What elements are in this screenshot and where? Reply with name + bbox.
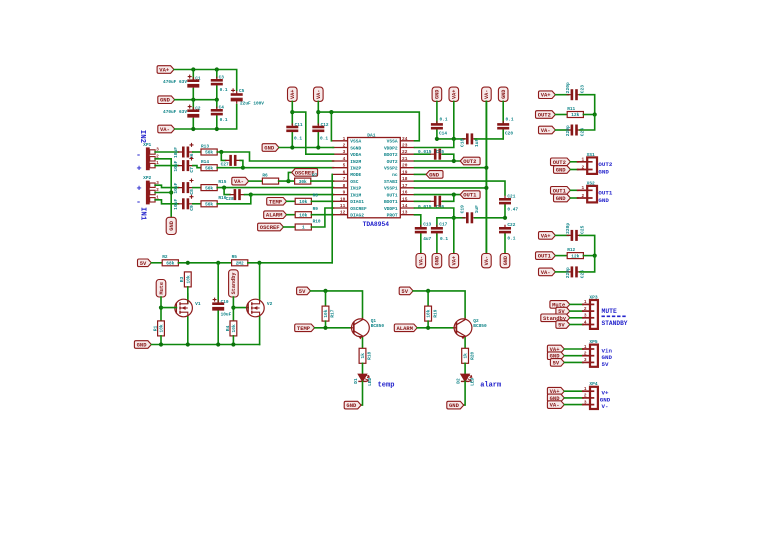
flag VA+ right — [449, 87, 459, 101]
svg-text:GND: GND — [556, 195, 567, 202]
flag TEMP — [267, 198, 287, 206]
svg-text:2: 2 — [584, 393, 587, 399]
capacitor C19 symbol — [462, 212, 477, 223]
capacitor C26 symbol — [567, 266, 582, 277]
flag GND xp5 — [547, 352, 564, 360]
capacitor C17 symbol — [431, 225, 443, 236]
capacitor C16 symbol — [430, 196, 445, 207]
junction out1 node — [452, 193, 456, 197]
svg-text:470uF 63V: 470uF 63V — [163, 79, 187, 85]
svg-text:1uF: 1uF — [474, 138, 480, 147]
wire base alarm — [417, 327, 453, 329]
svg-text:VA-: VA- — [541, 127, 551, 134]
wire C9 to R16 — [193, 203, 201, 205]
flag VA- zobel1 — [539, 268, 556, 276]
resistor R19 — [425, 306, 439, 321]
wire standby down — [232, 297, 234, 321]
svg-text:OSCREF: OSCREF — [350, 206, 367, 212]
connector XP4 — [582, 381, 598, 409]
svg-text:OUT1: OUT1 — [553, 187, 567, 194]
svg-text:5: 5 — [343, 163, 346, 169]
junction C28 right — [249, 193, 253, 197]
wire R8 to pin10 — [311, 200, 333, 202]
op-amp IC DA1 TDA8954 — [332, 132, 415, 228]
svg-text:13: 13 — [402, 210, 408, 216]
svg-text:OUT2: OUT2 — [598, 161, 612, 168]
wire pin21 out2 — [415, 160, 461, 162]
wire 5v xp3a — [570, 310, 583, 312]
svg-text:C9: C9 — [189, 205, 195, 211]
svg-text:VA+: VA+ — [541, 92, 552, 99]
capacitor C18 labels — [460, 138, 481, 147]
wire R9 to pin12 — [311, 214, 333, 216]
svg-text:1: 1 — [582, 185, 585, 191]
svg-text:0.1: 0.1 — [294, 136, 302, 142]
capacitor C21 symbol — [499, 196, 511, 207]
flag GND xs1 — [554, 166, 571, 174]
wire C11 bottom — [291, 133, 293, 148]
svg-text:C23: C23 — [580, 85, 586, 94]
wire GND to pin2 — [279, 147, 334, 149]
label OUT1 GND xs2 — [598, 190, 612, 204]
capacitor C2 labels — [163, 106, 201, 115]
svg-text:R8: R8 — [313, 193, 319, 199]
capacitor C20 symbol — [497, 121, 509, 132]
svg-text:VDDP2: VDDP2 — [384, 145, 398, 151]
svg-text:OSC: OSC — [350, 179, 358, 185]
svg-text:0.1: 0.1 — [320, 136, 328, 142]
svg-text:BOOT1: BOOT1 — [384, 199, 398, 205]
wire C10 bottom — [217, 311, 219, 344]
wire XP1.1 to C7 — [155, 165, 178, 167]
label OUT2 GND xs1 — [598, 161, 612, 175]
svg-text:VA-: VA- — [484, 90, 490, 99]
svg-text:1: 1 — [584, 299, 587, 305]
ground flag GND input — [166, 217, 176, 234]
capacitor C8 symbol — [178, 179, 194, 194]
flag VA- mid — [314, 87, 324, 101]
junction C12 gnd — [316, 145, 320, 149]
connector XP3 — [582, 294, 598, 329]
svg-text:16: 16 — [402, 190, 408, 196]
wire mute down — [160, 297, 162, 321]
junction R15 out — [222, 186, 226, 190]
svg-text:R19: R19 — [432, 309, 438, 317]
capacitor C7 labels — [173, 160, 195, 172]
wire pin18 stabi — [415, 181, 506, 195]
capacitor C3 symbol — [211, 77, 223, 88]
flag VA- xp4 — [547, 401, 564, 409]
wire V2 source — [259, 317, 261, 345]
capacitor C24 labels — [565, 125, 585, 136]
capacitor C15 symbol — [430, 149, 445, 160]
svg-text:1: 1 — [584, 344, 587, 350]
wire XP2.2 — [155, 192, 171, 194]
svg-text:C5: C5 — [239, 88, 245, 94]
svg-text:XP2: XP2 — [143, 175, 151, 181]
svg-text:+: + — [137, 163, 142, 173]
resistor R12 — [567, 247, 583, 259]
wire gnd xp4 — [564, 397, 583, 399]
svg-text:VDDA: VDDA — [350, 152, 361, 158]
svg-text:TEMP: TEMP — [297, 325, 311, 332]
resistor R9 — [295, 206, 318, 218]
svg-text:R13: R13 — [201, 143, 209, 149]
wire pullup top alarm — [427, 291, 429, 306]
svg-text:VSSA: VSSA — [350, 139, 361, 145]
wire C13 to va- — [420, 234, 422, 253]
wire OSCREF up — [288, 172, 291, 181]
resistor R8 — [295, 193, 318, 205]
svg-text:R10: R10 — [313, 218, 321, 224]
junction zobel2 — [593, 112, 597, 116]
flag Mute xp3 — [550, 301, 570, 309]
svg-text:R4: R4 — [225, 325, 231, 331]
junction C2 bottom — [191, 127, 195, 131]
svg-text:VA+: VA+ — [159, 67, 170, 74]
capacitor C26 labels — [565, 267, 585, 278]
capacitor C8 labels — [173, 182, 195, 194]
wire ALARM to R9 — [287, 214, 296, 216]
capacitor C13 symbol — [415, 225, 427, 236]
flag VA+ xp4 — [547, 387, 564, 395]
wire pin19 nc — [415, 173, 427, 175]
junction C1 top — [191, 67, 195, 71]
capacitor C18 symbol — [462, 133, 477, 144]
wire R15 to pin8 — [217, 187, 333, 189]
svg-text:LED: LED — [367, 377, 373, 385]
transistor V1 — [175, 299, 201, 317]
wire C12 bottom — [317, 133, 319, 148]
wire base temp — [315, 327, 351, 329]
wire V2 gate — [233, 307, 248, 309]
svg-text:R15: R15 — [218, 179, 226, 185]
flag GND xp4 — [547, 394, 564, 402]
wire V1 source — [187, 317, 189, 345]
junction pin1 branch — [329, 110, 333, 114]
separator dashes — [602, 315, 628, 317]
svg-text:VA+: VA+ — [541, 232, 552, 239]
svg-text:GND: GND — [137, 342, 148, 349]
junction V2 gate — [231, 306, 235, 310]
junction R3 top — [186, 261, 190, 265]
wire OUT2 to XS1 — [570, 161, 577, 163]
svg-text:1k: 1k — [463, 353, 469, 359]
wire C28 left — [224, 188, 230, 195]
svg-text:15: 15 — [402, 196, 408, 202]
wire C8 to R15 — [193, 187, 201, 189]
svg-text:XS2: XS2 — [587, 180, 595, 186]
connector XP2 — [143, 175, 159, 204]
wire C15 to out2 — [443, 154, 454, 161]
capacitor C19 labels — [460, 205, 481, 214]
svg-text:GND: GND — [346, 402, 357, 409]
wire pin15 boot1 — [415, 200, 431, 202]
wire 5V rail temp — [311, 291, 363, 318]
svg-text:OUT2: OUT2 — [553, 159, 566, 166]
flag VA+ xp5 — [547, 345, 564, 353]
wire C6 to R13 — [193, 151, 201, 153]
wire C4 top lead — [216, 100, 218, 108]
wire C17 to gnd — [436, 234, 438, 253]
wire V1 drain — [187, 294, 189, 299]
svg-text:GND: GND — [501, 90, 507, 99]
LED D1 — [353, 374, 373, 386]
svg-text:OUT2: OUT2 — [538, 112, 551, 119]
svg-text:VSSP1: VSSP1 — [384, 186, 398, 192]
svg-text:C17: C17 — [439, 222, 447, 228]
svg-text:C24: C24 — [580, 128, 586, 137]
svg-text:R18: R18 — [367, 351, 373, 359]
wire pin23 up — [415, 139, 454, 148]
wire R5 to mode — [248, 262, 332, 264]
svg-text:9: 9 — [343, 190, 346, 196]
capacitor C9 symbol — [178, 195, 194, 210]
svg-text:4: 4 — [343, 156, 346, 162]
flag ALARM alarm — [394, 324, 417, 332]
resistor R13 — [201, 143, 217, 155]
svg-text:17: 17 — [402, 183, 408, 189]
flag 5V xp5 — [550, 359, 564, 367]
svg-text:C18: C18 — [460, 138, 466, 147]
capacitor C21 labels — [507, 194, 518, 213]
label MUTE — [602, 308, 618, 315]
resistor R18 — [359, 348, 373, 363]
label temp — [378, 382, 395, 390]
svg-text:R16: R16 — [218, 195, 226, 201]
flag VA- bottom — [416, 254, 426, 268]
capacitor C9 labels — [173, 199, 195, 211]
flag VA- bottom2 — [482, 254, 492, 268]
svg-text:2: 2 — [343, 143, 346, 149]
flag 5V xp3a — [556, 307, 570, 315]
capacitor C13 labels — [423, 222, 431, 242]
svg-text:OUT1: OUT1 — [538, 253, 552, 260]
svg-text:30k: 30k — [299, 179, 307, 185]
flag VA+ mid — [288, 87, 298, 101]
junction C3-C4 — [215, 98, 219, 102]
wire va- xp4 — [564, 404, 583, 406]
connector XP5 — [582, 339, 598, 367]
junction base alarm — [426, 326, 430, 330]
svg-text:10k: 10k — [299, 199, 307, 205]
wire C1 bottom lead — [192, 89, 194, 100]
wire VA- rail — [175, 105, 237, 129]
svg-text:R14: R14 — [201, 159, 209, 165]
junction gnd V1 — [186, 342, 190, 346]
svg-text:VSSP2: VSSP2 — [384, 166, 398, 172]
capacitor C16 labels — [418, 204, 444, 210]
resistor R11 — [567, 106, 583, 118]
svg-text:VA-: VA- — [160, 126, 170, 133]
svg-text:R3: R3 — [179, 276, 185, 282]
capacitor C2 symbol — [187, 105, 199, 120]
wire 5V to R2 — [151, 262, 162, 264]
polarity minus XP2 — [136, 197, 141, 207]
flag GND c14 — [432, 87, 442, 101]
resistor R16 — [201, 195, 227, 207]
svg-text:IN2P: IN2P — [350, 166, 361, 172]
svg-text:1k: 1k — [360, 353, 366, 359]
svg-text:GND: GND — [169, 220, 175, 230]
flag 5V temp — [297, 287, 311, 295]
svg-text:IN2: IN2 — [138, 130, 146, 143]
wire C14 bottom — [436, 130, 438, 139]
transistor V2 — [247, 299, 273, 317]
flag GND c20 — [498, 87, 508, 101]
wire R6 to R7 — [279, 180, 295, 182]
svg-text:56k: 56k — [205, 185, 213, 191]
capacitor C3 labels — [219, 75, 228, 94]
svg-text:10uF: 10uF — [173, 182, 179, 193]
svg-text:10k: 10k — [426, 309, 432, 317]
svg-text:20: 20 — [402, 163, 408, 169]
wire pin20 vssp2 — [415, 167, 487, 169]
capacitor C11 labels — [294, 122, 303, 142]
flag GND alarm — [447, 401, 464, 409]
svg-text:5V: 5V — [558, 322, 565, 329]
svg-text:2M2: 2M2 — [236, 261, 244, 267]
flag Standby xp3 — [541, 314, 570, 322]
svg-text:2: 2 — [584, 351, 587, 357]
capacitor C10 symbol — [212, 298, 224, 313]
capacitor C17 labels — [439, 222, 448, 242]
svg-text:OUT1: OUT1 — [387, 192, 398, 198]
wire GND to XS2 — [570, 197, 577, 199]
svg-text:0.1: 0.1 — [506, 116, 514, 122]
label V+ GND V- — [600, 390, 611, 410]
wire to LED alarm — [464, 363, 466, 373]
wire R14 to pin5 — [217, 167, 333, 169]
svg-text:3: 3 — [584, 357, 587, 363]
svg-text:5V: 5V — [299, 288, 306, 295]
svg-text:R17: R17 — [330, 309, 336, 317]
svg-text:10uF: 10uF — [173, 147, 179, 158]
svg-text:10k: 10k — [159, 324, 165, 332]
svg-text:R11: R11 — [567, 106, 575, 112]
svg-text:2: 2 — [584, 306, 587, 312]
junction c19 row — [452, 216, 456, 220]
resistor R17 — [322, 306, 336, 321]
wire XP2.1 to C9 — [155, 200, 178, 204]
wire OUT1 to R12 — [555, 255, 567, 257]
wire 5v xp3b — [570, 324, 583, 326]
svg-text:Q2: Q2 — [473, 318, 479, 324]
svg-text:nc: nc — [392, 173, 398, 178]
svg-text:Q1: Q1 — [371, 318, 377, 324]
svg-text:LED: LED — [470, 377, 476, 385]
junction gnd R4 — [231, 342, 235, 346]
svg-text:GND: GND — [556, 167, 567, 174]
svg-text:0.1: 0.1 — [220, 117, 228, 123]
junction gnd C10 — [216, 342, 220, 346]
capacitor C28 symbol — [230, 189, 245, 200]
svg-text:TDA8954: TDA8954 — [363, 221, 390, 228]
svg-text:5V: 5V — [553, 359, 560, 366]
capacitor C6 labels — [173, 147, 195, 159]
svg-text:5V: 5V — [401, 288, 408, 295]
flag GND nc — [426, 171, 443, 179]
wire C2 bottom lead — [192, 119, 194, 129]
svg-text:10uF: 10uF — [221, 311, 232, 317]
resistor R7 — [295, 173, 318, 185]
capacitor C15 labels — [418, 149, 444, 155]
svg-text:XS1: XS1 — [587, 152, 595, 158]
svg-text:1: 1 — [584, 386, 587, 392]
flag OUT2 zobel — [536, 111, 556, 119]
svg-text:21: 21 — [402, 156, 408, 162]
svg-text:10k: 10k — [323, 309, 329, 317]
wire C17 drop — [436, 218, 438, 227]
wire C27 left — [221, 152, 225, 160]
svg-text:0.1: 0.1 — [440, 236, 448, 242]
svg-text:4u7: 4u7 — [423, 236, 431, 242]
wire C22 to gnd — [504, 234, 506, 253]
capacitor C25 labels — [565, 223, 585, 234]
flag OUT1 zobel — [536, 252, 556, 260]
junction vssp1 — [484, 186, 488, 190]
wire 5V rail alarm — [413, 291, 465, 318]
junction gnd R1 — [159, 342, 163, 346]
svg-text:C25: C25 — [580, 225, 586, 234]
svg-text:OUT2: OUT2 — [463, 158, 476, 165]
wire VA+ to C23 — [555, 94, 568, 96]
capacitor C23 symbol — [567, 89, 582, 100]
wire GND to XS1 — [570, 169, 577, 171]
svg-text:23: 23 — [402, 143, 408, 149]
wire XP2.3 to C8 — [155, 185, 178, 187]
wire gnd xp5 — [564, 355, 583, 357]
wire OUT2 to R11 — [555, 114, 567, 116]
svg-text:SGND: SGND — [350, 145, 361, 151]
svg-text:220p: 220p — [565, 125, 571, 136]
wire VA- to C26 — [555, 271, 568, 273]
connector XS2 — [577, 180, 597, 202]
wire C28 right — [245, 194, 251, 196]
resistor R4 — [225, 321, 237, 336]
svg-text:Mute: Mute — [159, 282, 165, 294]
wire C26 to node — [580, 256, 595, 272]
wire C2 top lead — [192, 100, 194, 109]
svg-text:12k: 12k — [571, 112, 579, 118]
svg-text:4: 4 — [584, 319, 587, 325]
wire VA+ to C25 — [555, 234, 568, 236]
svg-text:XP4: XP4 — [589, 381, 597, 387]
wire C18 to C20 — [475, 138, 503, 140]
connector XS1 — [577, 152, 597, 174]
svg-text:1uF: 1uF — [474, 205, 480, 214]
junction C11 gnd — [290, 145, 294, 149]
svg-text:2: 2 — [582, 193, 585, 199]
capacitor C5 symbol — [231, 88, 243, 103]
resistor R5 — [232, 254, 248, 266]
wire pullup bottom temp — [325, 321, 327, 328]
resistor R2 — [162, 254, 178, 266]
capacitor C12 labels — [320, 122, 329, 142]
svg-text:R9: R9 — [313, 206, 319, 212]
svg-text:R6: R6 — [262, 173, 268, 179]
wire mute xp3 — [570, 303, 583, 305]
svg-text:IN1: IN1 — [138, 207, 146, 221]
svg-text:10uF: 10uF — [173, 160, 179, 171]
wire V2 drain — [259, 263, 261, 299]
svg-text:2: 2 — [582, 164, 585, 170]
svg-text:DIAG1: DIAG1 — [350, 199, 364, 205]
connector XP1 — [143, 142, 159, 170]
svg-text:VA+: VA+ — [290, 90, 296, 99]
svg-text:C16: C16 — [436, 204, 444, 210]
flag VA- right — [482, 87, 492, 101]
